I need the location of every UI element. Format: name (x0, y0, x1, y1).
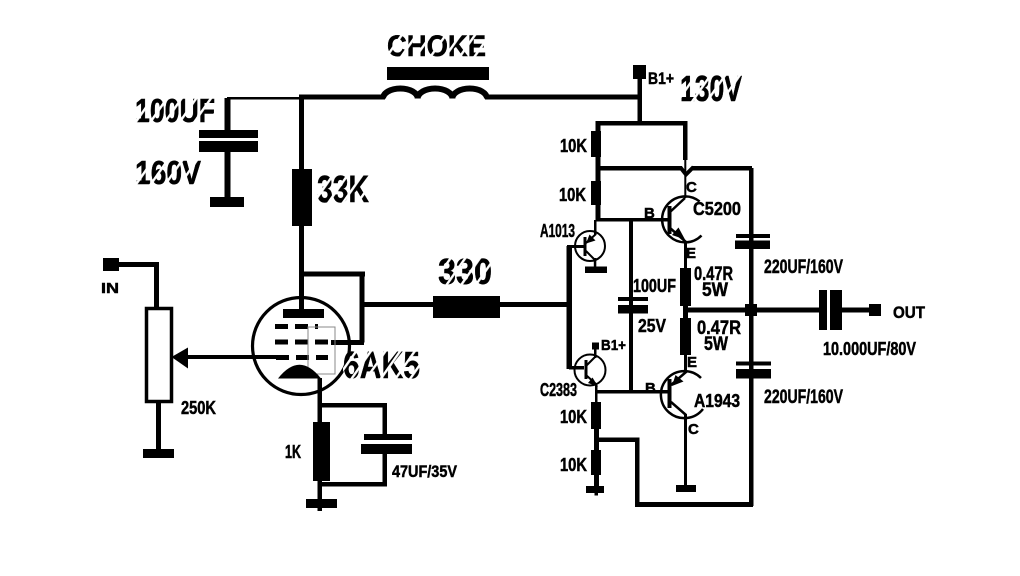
wire 47UF top lead (383, 403, 388, 435)
transistor Q3 C5200 circle (662, 196, 701, 242)
transistor Q4 A1943 circle (661, 371, 703, 418)
wire 33K bottom lead (299, 226, 304, 274)
wire A1013 emitter up (594, 220, 597, 235)
wire C2383 collector stub (594, 349, 597, 358)
wire C2383 emitter down (595, 385, 598, 402)
resistor 10K fourth body (591, 450, 601, 475)
svg-text:10K: 10K (560, 407, 587, 427)
transistor Q2 C2383 emitter lead (586, 375, 597, 385)
tube V1 6AK5 envelope (253, 298, 350, 395)
wire feedback branch vertical (635, 438, 640, 506)
svg-text:47UF/35V: 47UF/35V (392, 462, 458, 481)
wire 220UF rail upper (749, 168, 754, 304)
svg-text:B1+: B1+ (601, 337, 626, 354)
wire 10K first bottom lead (596, 157, 601, 170)
wire 10K fourth top lead (594, 440, 599, 450)
tube V1 grid row 3 (276, 355, 328, 360)
transistor Q1 A1013 circle (575, 231, 605, 261)
capacitor C1 100UF/160V bottom plate (199, 141, 258, 152)
wire 10K first top lead (596, 121, 601, 131)
tube V1 plate lead (299, 274, 304, 309)
svg-text:5W: 5W (704, 334, 728, 355)
wire C5200 emitter down (684, 241, 687, 269)
svg-text:C5200: C5200 (693, 199, 741, 219)
ground under pot (143, 449, 174, 458)
bar A1013 collector termination (585, 267, 607, 274)
transistor Q4 A1943 base bar (668, 379, 672, 408)
transistor Q3 C5200 emitter arrow (672, 228, 685, 240)
wire base rail C5200 (596, 218, 668, 222)
wire 10K second top lead (596, 170, 601, 181)
wire A1943 collector down (684, 414, 687, 485)
wire IN to pot top horizontal (119, 262, 159, 267)
svg-text:100UF: 100UF (633, 276, 676, 296)
svg-text:C2383: C2383 (540, 380, 577, 400)
capacitor 100UF/25V bottom plate (618, 305, 648, 314)
wire grid to pot arrow line (185, 355, 281, 359)
svg-text:1K: 1K (285, 442, 301, 462)
wire 330 to driver rail (500, 302, 572, 307)
svg-text:B: B (644, 205, 655, 222)
transistor Q4 A1943 collector lead (671, 402, 686, 415)
wire C1 top stub (225, 98, 231, 131)
transistor Q4 A1943 emitter lead (671, 372, 686, 385)
svg-text:10K: 10K (560, 136, 587, 156)
node IN terminal square (103, 258, 119, 271)
wire B1+ vertical drop (638, 79, 643, 125)
wire driver input rail (567, 246, 573, 369)
capacitor 10000UF left plate (819, 290, 827, 330)
node output junction square (745, 304, 757, 316)
svg-text:10.000UF/80V: 10.000UF/80V (823, 339, 916, 359)
transistor Q2 C2383 emitter arrow (588, 378, 598, 387)
wire pot bottom vertical (156, 403, 161, 449)
resistor 0.47R second body (680, 318, 691, 355)
svg-text:A1943: A1943 (694, 391, 740, 411)
svg-text:220UF/160V: 220UF/160V (764, 387, 843, 408)
wire top rail to C5200 collector branch (640, 121, 687, 126)
capacitor 220UF/160V lower top plate (736, 362, 771, 366)
capacitor 47UF top plate (364, 434, 412, 440)
wire 100UF coupling rail (629, 220, 633, 390)
transistor Q1 A1013 emitter lead with arrow (586, 234, 596, 243)
wire 1K top lead (318, 407, 323, 422)
ground under C1 (210, 197, 244, 207)
capacitor 100UF/25V top plate (618, 297, 648, 301)
svg-text:E: E (687, 354, 697, 371)
svg-text:C: C (688, 421, 699, 438)
wire bottom return (635, 502, 753, 507)
ground under 10K fourth (586, 486, 604, 493)
wire cathode top branch (318, 403, 387, 408)
svg-text:B: B (645, 380, 656, 397)
ground under 1K (306, 499, 337, 508)
wire mid rail horizontal left segment (596, 166, 683, 171)
wire 10K fourth bottom lead (594, 475, 599, 489)
capacitor 47UF bottom plate (361, 444, 412, 454)
tube V1 grid row 2 (275, 340, 328, 345)
wire A1943 emitter up (684, 355, 687, 373)
wire output line (686, 308, 819, 313)
transistor Q1 A1013 base bar (584, 237, 587, 256)
capacitor 220UF/160V upper bottom plate (735, 241, 770, 250)
svg-text:25V: 25V (638, 316, 666, 336)
capacitor C1 100UF/160V top plate (199, 130, 258, 138)
wire 33K top lead (299, 99, 304, 170)
wire C2383 base from rail (569, 366, 584, 370)
wire 220UF rail lower (749, 316, 754, 506)
transistor Q4 A1943 emitter arrow (672, 375, 684, 386)
wire 10K second bottom lead (596, 205, 601, 220)
wire cathode bottom branch (318, 482, 387, 487)
wire pot top vertical (154, 262, 159, 307)
wire 1K bottom lead (318, 481, 323, 511)
ground under A1943 (676, 485, 696, 492)
resistor 10K second body (591, 181, 601, 205)
wire plate junction to screen top (299, 272, 365, 277)
wire top rail to driver (596, 121, 642, 126)
wire between 0.47R resistors (683, 306, 688, 318)
svg-text:OUT: OUT (893, 303, 926, 322)
wire A1943 base rail (596, 390, 668, 394)
transistor Q2 C2383 collector lead (586, 357, 595, 366)
svg-text:E: E (686, 245, 696, 262)
wire cathode lead (318, 378, 323, 407)
potentiometer 250K body (147, 309, 172, 402)
capacitor 10000UF right plate (830, 290, 842, 330)
ground stub 10K fourth (595, 493, 599, 496)
wire A1013 collector down (594, 258, 597, 268)
node B1+ terminal square (633, 65, 646, 79)
tube V1 plate (283, 309, 324, 318)
transistor Q3 C5200 emitter lead (670, 228, 686, 242)
resistor 1K body (313, 422, 330, 481)
wire feedback branch horizontal (594, 438, 639, 443)
transistor Q3 C5200 base bar (668, 206, 672, 234)
wire output cap to OUT (842, 308, 869, 313)
arrow pot wiper arrowhead (172, 348, 189, 369)
svg-text:A1013: A1013 (540, 221, 575, 241)
svg-text:5W: 5W (702, 280, 728, 301)
transistor Q1 A1013 emitter arrow (586, 235, 596, 244)
resistor 10K first body (591, 131, 601, 157)
inductor L1 choke windings (383, 88, 487, 98)
wire B+ line right segment (485, 95, 641, 100)
svg-text:250K: 250K (181, 398, 216, 418)
svg-text:10K: 10K (559, 185, 586, 205)
tube V1 grid row 1 (275, 324, 318, 329)
capacitor 220UF/160V lower bottom plate (736, 369, 771, 379)
svg-text:IN: IN (101, 280, 119, 297)
resistor 33K body (292, 169, 312, 226)
svg-text:10K: 10K (560, 455, 587, 475)
transistor Q1 A1013 collector lead (586, 251, 595, 260)
wire 10K third bottom lead (594, 429, 599, 441)
resistor 10K third body (591, 402, 601, 429)
resistor 0.47R first body (680, 268, 691, 306)
wire plate output to 330 (362, 302, 435, 307)
transistor Q2 C2383 circle (575, 355, 606, 386)
inductor L1 choke core bar (387, 67, 489, 80)
wire 47UF bottom lead (383, 454, 388, 486)
wire collector branch vertical (683, 121, 688, 160)
resistor 330 body (433, 296, 500, 318)
tube V1 cathode dome (278, 365, 321, 379)
transistor Q3 C5200 collector lead (670, 198, 685, 212)
wire C5200 collector up (684, 158, 686, 198)
wire screen branch vertical (360, 272, 365, 343)
svg-text:C: C (686, 179, 697, 196)
capacitor 220UF/160V upper top plate (736, 234, 770, 238)
wire A1013 base from rail (567, 245, 584, 248)
tube V1 grid box outline (308, 327, 335, 374)
node OUT terminal square (869, 304, 881, 316)
node B1+ second terminal square (592, 343, 599, 350)
wire C1 bottom stub (225, 152, 231, 198)
svg-text:B1+: B1+ (648, 69, 674, 88)
wire mid rail horizontal right segment (692, 166, 752, 171)
svg-text:220UF/160V: 220UF/160V (764, 257, 843, 278)
wire B+ line left thin segment (227, 97, 303, 100)
wire collector notch V (681, 167, 694, 175)
wire screen stub to grid (331, 340, 364, 345)
wire B+ line mid segment (299, 95, 385, 100)
transistor Q2 C2383 base bar (585, 360, 588, 379)
